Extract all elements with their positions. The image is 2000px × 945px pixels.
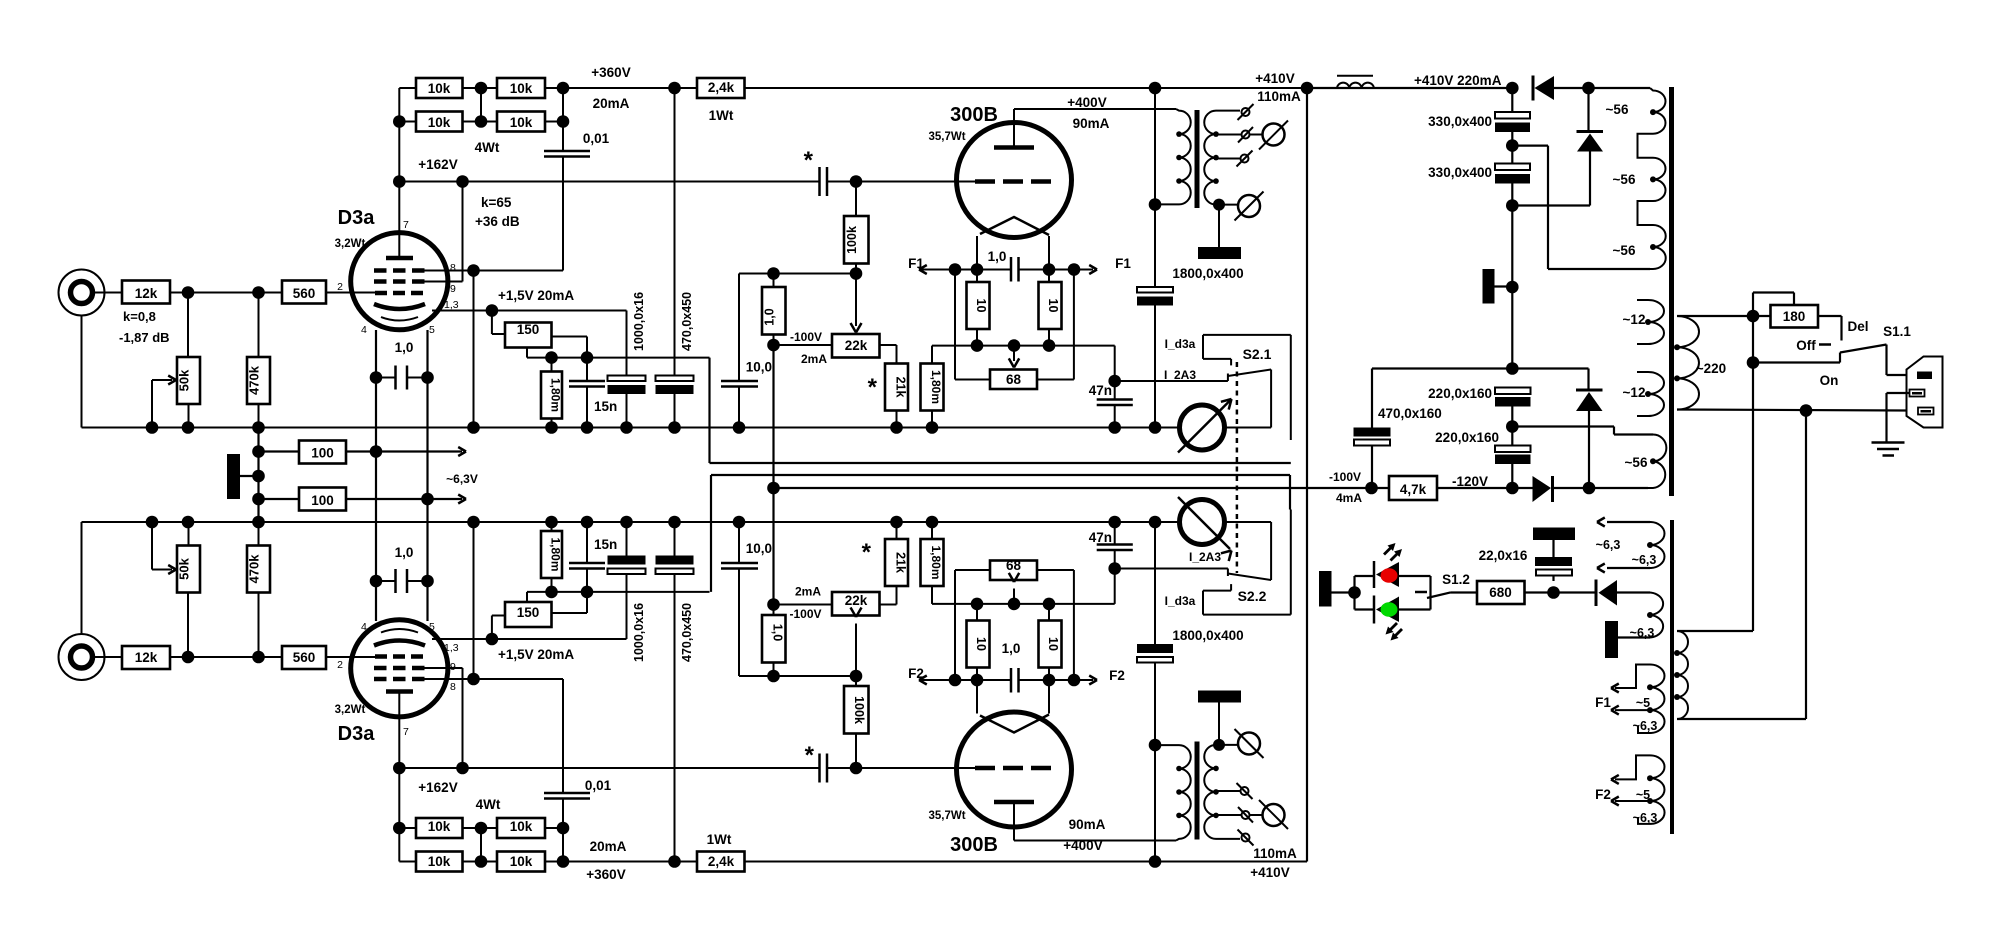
svg-text:Off: Off (1796, 338, 1816, 353)
wire 12k to 560 ch1 (170, 292, 282, 294)
filament wire pin4 (375, 330, 377, 621)
speaker tap 1 ch2 (1216, 838, 1240, 840)
svg-text:F2: F2 (1595, 787, 1611, 802)
wire -100V ch1 (774, 344, 833, 346)
wire +400V ch2 (1014, 840, 1176, 842)
resistor 10 right ch2 (1039, 621, 1062, 668)
+360V rail ch2 (563, 861, 697, 863)
svg-text:470,0x450: 470,0x450 (680, 603, 694, 662)
winding F2 (1615, 755, 1665, 801)
svg-text:1Wt: 1Wt (707, 832, 732, 847)
svg-text:+36 dB: +36 dB (475, 214, 520, 229)
winding cusp nubs (1650, 109, 1656, 115)
svg-text:-120V: -120V (1452, 474, 1488, 489)
svg-text:1,0: 1,0 (771, 624, 785, 641)
wire bias winding top (1512, 425, 1614, 427)
winding ~6,3 a (1607, 521, 1650, 523)
svg-text:+360V: +360V (586, 867, 625, 882)
wire pin8 row ch1 (424, 270, 563, 272)
svg-text:22k: 22k (845, 593, 868, 608)
filament primary winding (1677, 631, 1688, 719)
wire 1,3 down ch2 (626, 574, 628, 639)
svg-text:470k: 470k (247, 365, 262, 395)
svg-text:+400V: +400V (1063, 838, 1102, 853)
speaker tap 4 ground ch1 (1216, 204, 1238, 206)
output transformer secondary ch1 (1204, 111, 1216, 205)
svg-text:+162V: +162V (418, 780, 457, 795)
svg-text:D3a: D3a (338, 723, 376, 745)
coupling capacitor * ch2 (818, 754, 821, 783)
svg-text:+410V: +410V (1255, 71, 1294, 86)
grid wire 300B ch1 (827, 181, 975, 183)
resistor 100 row2 (259, 498, 300, 500)
svg-text:4Wt: 4Wt (476, 797, 501, 812)
svg-text:100: 100 (311, 493, 334, 508)
resistor 1,0 ch1 (762, 287, 786, 335)
LED green (1373, 596, 1376, 624)
wire 12k to 560 ch2 (170, 656, 282, 658)
capacitor 1,0 filament ch1 (1010, 257, 1013, 282)
svg-text:On: On (1820, 373, 1839, 388)
wire 1,3 down ch1 (626, 311, 628, 376)
svg-text:12k: 12k (135, 650, 158, 665)
svg-text:20mA: 20mA (593, 96, 630, 111)
grid-stop row 68 ch2 (932, 603, 1115, 605)
output transformer core ch2 (1195, 742, 1200, 840)
svg-text:F1: F1 (1115, 256, 1131, 271)
svg-text:*: * (805, 742, 815, 769)
tube 300B ch1 (957, 123, 1072, 238)
capacitor 10,0 ch2 (738, 570, 740, 677)
chassis ground bar (227, 454, 240, 499)
svg-text:1800,0x400: 1800,0x400 (1172, 628, 1243, 643)
wire pin9 to +162V ch1 (424, 281, 463, 283)
capacitor 10,0 ch1 (738, 274, 740, 381)
wire to 150 ch2 (491, 616, 493, 640)
svg-text:k=65: k=65 (481, 195, 512, 210)
resistor 10k a ch1 (416, 78, 463, 98)
svg-text:12k: 12k (135, 286, 158, 301)
primary winding ~220 (1677, 316, 1699, 410)
winding ~12 b (1637, 372, 1664, 416)
wire HV winding return (1512, 145, 1548, 147)
capacitor 330,0x400 b (1495, 164, 1530, 171)
svg-text:470,0x160: 470,0x160 (1378, 406, 1442, 421)
resistor 1,80m a ch1 (541, 372, 562, 419)
svg-text:~5: ~5 (1636, 696, 1650, 710)
diode D5 (1595, 580, 1598, 607)
svg-text:-100V: -100V (789, 607, 821, 621)
capacitor 47n ch2 (1114, 551, 1116, 604)
coupling capacitor * ch1 (818, 167, 821, 196)
svg-text:220,0x160: 220,0x160 (1435, 430, 1499, 445)
resistor 100k ch2 (844, 686, 869, 734)
svg-text:~6,3: ~6,3 (1596, 538, 1621, 552)
resistor 10 left ch2 (967, 621, 990, 668)
capacitor 1,0 filament ch2 (1010, 668, 1013, 693)
input RCA jack ch1 (59, 270, 105, 316)
switch S1.1 (1819, 343, 1831, 346)
OPT winding nubs ch2 (1176, 813, 1182, 819)
svg-text:I_d3a: I_d3a (1165, 337, 1196, 351)
speaker tap 2 ch1 (1216, 134, 1241, 136)
winding F1 (1615, 665, 1665, 711)
input RCA jack ch2 (59, 634, 105, 680)
svg-text:+410V: +410V (1250, 865, 1289, 880)
svg-text:9: 9 (450, 283, 456, 295)
power transformer core (1669, 87, 1674, 496)
tube D3a ch1 (351, 233, 448, 330)
svg-text:47n: 47n (1089, 383, 1112, 398)
capacitor 470,0x160 (1371, 369, 1373, 428)
svg-text:+410V 220mA: +410V 220mA (1414, 73, 1502, 88)
svg-text:50k: 50k (177, 557, 192, 579)
svg-text:I_2A3: I_2A3 (1189, 550, 1221, 564)
svg-text:1,80m: 1,80m (929, 545, 943, 579)
svg-text:*: * (868, 374, 878, 401)
svg-text:1000,0x16: 1000,0x16 (632, 292, 646, 351)
wire 10k rows join ch2 (480, 828, 482, 862)
LED bracket left (1353, 576, 1355, 610)
svg-text:-100V: -100V (790, 330, 822, 344)
svg-text:4: 4 (361, 324, 367, 336)
svg-text:22,0x16: 22,0x16 (1479, 548, 1528, 563)
svg-text:~6,3: ~6,3 (1633, 719, 1658, 733)
ground bus ch2 (82, 521, 1180, 523)
resistor 680 (1477, 581, 1525, 604)
cathode wire 1,3 ch1 (432, 310, 627, 312)
svg-text:21k: 21k (894, 552, 908, 573)
capacitor 15n ch1 (586, 358, 588, 380)
speaker tap 3 ch1 (1216, 158, 1240, 160)
resistor 21k ch1 (880, 344, 897, 346)
speaker tap 4 ground ch2 (1216, 744, 1238, 746)
svg-text:2mA: 2mA (801, 352, 827, 366)
winding ~12 a (1637, 300, 1664, 344)
resistor 10 right ch1 (1039, 282, 1062, 329)
svg-text:10: 10 (974, 299, 988, 313)
arrow into 22k ch1 (855, 274, 857, 327)
resistor 22k ch1 (832, 334, 880, 358)
capacitor 1,0 D3a filament ch2 (376, 580, 395, 582)
svg-text:100k: 100k (845, 226, 859, 254)
output transformer secondary ch2 (1204, 745, 1216, 839)
resistor 12k ch2 (122, 646, 170, 669)
wire jack to 12k ch1 (95, 292, 122, 294)
potentiometer 50k ch1 (177, 357, 200, 404)
svg-text:47n: 47n (1089, 530, 1112, 545)
svg-text:90mA: 90mA (1069, 817, 1106, 832)
wire pin8 row ch2 (424, 678, 563, 680)
svg-text:300B: 300B (950, 834, 998, 856)
svg-text:~6,3: ~6,3 (1632, 553, 1657, 567)
svg-text:35,7Wt: 35,7Wt (928, 810, 965, 822)
svg-text:10k: 10k (428, 81, 451, 96)
svg-text:68: 68 (1006, 372, 1022, 387)
resistor 10k a ch2 (416, 852, 463, 872)
HV winding ~56 (1638, 88, 1666, 269)
svg-text:S1.1: S1.1 (1883, 324, 1911, 339)
svg-text:10,0: 10,0 (746, 360, 772, 375)
svg-text:7: 7 (403, 219, 409, 231)
choke L1 (1337, 75, 1373, 77)
resistor 560 ch2 (282, 646, 326, 669)
output transformer primary ch1 (1176, 109, 1191, 204)
svg-text:3,2Wt: 3,2Wt (335, 704, 366, 716)
svg-text:10k: 10k (510, 854, 533, 869)
capacitor 22,0x16 (1533, 528, 1575, 541)
resistor 1,0 ch2 (762, 615, 786, 663)
resistor 1,80m b ch1 (921, 364, 944, 411)
svg-text:50k: 50k (177, 369, 192, 391)
grid-stop row 68 ch1 (932, 345, 1115, 347)
diode D4 (1512, 487, 1532, 489)
resistor 470k ch1 (247, 357, 270, 404)
svg-text:0,01: 0,01 (583, 131, 610, 146)
capacitor 15n ch2 (586, 570, 588, 592)
svg-text:10: 10 (974, 637, 988, 651)
bias tap wire (1506, 362, 1519, 375)
wire D1 to transformer (1589, 87, 1651, 89)
svg-text:~12: ~12 (1623, 312, 1646, 327)
capacitor 220,0x160 b (1495, 446, 1531, 453)
resistor 68 ch1 (954, 270, 956, 380)
resistor 10k d ch1 (497, 112, 545, 132)
svg-text:15n: 15n (594, 399, 617, 414)
svg-text:I_2A3: I_2A3 (1164, 368, 1196, 382)
svg-text:470,0x450: 470,0x450 (680, 292, 694, 351)
svg-text:4mA: 4mA (1336, 491, 1362, 505)
capacitor 470,0x450 ch2 (674, 574, 676, 862)
svg-text:10,0: 10,0 (746, 541, 772, 556)
svg-text:~56: ~56 (1625, 455, 1648, 470)
inter-bus vertical (257, 428, 259, 523)
capacitor 1000,0x16 ch2 (608, 556, 646, 565)
resistor 10k c ch2 (416, 818, 463, 838)
tube 300B ch2 (957, 712, 1072, 827)
diode D2 (1587, 88, 1589, 132)
svg-text:10k: 10k (428, 854, 451, 869)
rectifier winding ~6,3 (1650, 593, 1663, 638)
svg-text:1800,0x400: 1800,0x400 (1172, 266, 1243, 281)
resistor 12k ch1 (122, 281, 170, 304)
wire +400V ch1 (1014, 108, 1176, 110)
speaker tap 3 ch2 (1216, 790, 1240, 792)
svg-text:10k: 10k (428, 819, 451, 834)
wire pin9 to +162V ch2 (424, 667, 463, 669)
capacitor 47n ch1 (1114, 346, 1116, 399)
svg-text:-100V: -100V (1329, 470, 1361, 484)
meter I_2A3 ch2 (1180, 500, 1225, 545)
svg-text:560: 560 (293, 650, 316, 665)
bias winding ~56 (1648, 435, 1666, 489)
resistor 22k ch2 (832, 592, 880, 616)
svg-text:10k: 10k (428, 115, 451, 130)
LED bracket right (1399, 575, 1431, 577)
svg-text:4,7k: 4,7k (1400, 482, 1427, 497)
svg-text:+360V: +360V (591, 65, 630, 80)
svg-text:8: 8 (450, 262, 456, 274)
svg-text:~220: ~220 (1696, 361, 1726, 376)
svg-text:S2.2: S2.2 (1238, 588, 1267, 604)
+162V rail ch2 (399, 767, 819, 769)
svg-text:Del: Del (1847, 319, 1868, 334)
svg-text:35,7Wt: 35,7Wt (928, 131, 965, 143)
cathode wire 1,3 ch2 (432, 638, 627, 640)
svg-text:1,80m: 1,80m (929, 370, 943, 404)
LED red (1373, 561, 1376, 588)
resistor 180 delay (1752, 293, 1754, 317)
svg-text:10k: 10k (510, 115, 533, 130)
cathode row ch2 (527, 591, 710, 593)
svg-text:+400V: +400V (1067, 95, 1106, 110)
svg-text:220,0x160: 220,0x160 (1428, 386, 1492, 401)
resistor 150 ch1 (505, 323, 552, 348)
capacitor 1800,0x400 ch2 (1154, 663, 1156, 862)
svg-text:F1: F1 (908, 256, 924, 271)
svg-text:F1: F1 (1595, 695, 1611, 710)
svg-text:1,3: 1,3 (444, 642, 459, 654)
svg-text:+1,5V 20mA: +1,5V 20mA (498, 647, 574, 662)
switch blade S2 ch1 (1228, 370, 1271, 377)
svg-text:~56: ~56 (1613, 243, 1636, 258)
resistor 21k ch2 (880, 604, 897, 606)
svg-text:*: * (862, 539, 872, 566)
resistor 10 left ch1 (967, 282, 990, 329)
bias node wire ch2 (739, 675, 856, 677)
resistor 100k ch1 (844, 216, 869, 264)
wire 560 to grid ch2 (326, 656, 375, 658)
tube D3a ch2 (351, 620, 448, 717)
svg-text:1,0: 1,0 (988, 249, 1007, 264)
filament row F ch2 (919, 679, 1011, 681)
speaker tap 1 ch1 (1216, 110, 1240, 112)
svg-text:5: 5 (429, 324, 435, 336)
resistor 10k b ch1 (497, 78, 545, 98)
capacitor 1,0 D3a filament ch1 (376, 377, 395, 379)
svg-text:S2.1: S2.1 (1243, 346, 1272, 362)
switch S2 outline ch1 (1203, 334, 1291, 336)
svg-text:D3a: D3a (338, 207, 376, 229)
svg-text:10k: 10k (510, 81, 533, 96)
svg-text:0,01: 0,01 (585, 778, 612, 793)
svg-text:~6,3: ~6,3 (1633, 811, 1658, 825)
svg-text:2mA: 2mA (795, 585, 821, 599)
IEC socket (1907, 357, 1943, 428)
svg-text:470k: 470k (247, 554, 262, 584)
svg-text:560: 560 (293, 286, 316, 301)
arrow into 68 ch2 (1013, 589, 1015, 604)
svg-text:680: 680 (1489, 585, 1512, 600)
switch S1.2 (1415, 591, 1427, 594)
potentiometer 50k ch2 (177, 546, 200, 593)
svg-text:150: 150 (517, 322, 540, 337)
+360V rail ch1 (563, 87, 697, 89)
arrow into 68 ch1 (1013, 346, 1015, 361)
svg-text:110mA: 110mA (1257, 89, 1301, 104)
meter I_2A3 ch1 (1180, 405, 1225, 450)
wire primary bottom (1677, 410, 1907, 411)
wire blade to meter ch1 (1270, 370, 1272, 428)
svg-text:20mA: 20mA (590, 839, 627, 854)
resistor 1,80m b ch2 (921, 539, 944, 586)
LED ground bar (1319, 571, 1332, 607)
wire 560 to grid ch1 (326, 292, 375, 294)
wire 10k rows join ch1 (480, 88, 482, 122)
cathode row ch1 (527, 357, 710, 359)
wire pin8 to bus ch2 (473, 522, 475, 679)
svg-text:+162V: +162V (418, 157, 457, 172)
filament transformer core (1670, 520, 1674, 834)
capacitor 330,0x400 a (1511, 88, 1513, 112)
wire to 150 ch1 (491, 311, 493, 335)
wire jack down to bus ch2 (81, 522, 83, 634)
wire cathode sense ch2 (710, 475, 712, 592)
svg-text:15n: 15n (594, 537, 617, 552)
svg-text:100k: 100k (852, 696, 866, 724)
capacitor 0,01 ch1 (562, 88, 564, 150)
resistor 150 ch2 (505, 602, 552, 627)
capacitor 1800,0x400 ch1 (1154, 88, 1156, 287)
svg-text:*: * (804, 147, 814, 174)
+410V feed vertical (1306, 88, 1308, 862)
svg-text:1Wt: 1Wt (709, 108, 734, 123)
svg-text:~56: ~56 (1606, 102, 1629, 117)
arrow into 22k ch2 (855, 624, 857, 677)
wire pin7 ladder ch2 (398, 768, 400, 862)
svg-text:~56: ~56 (1613, 172, 1636, 187)
resistor 68 ch2 (954, 570, 956, 680)
resistor 10k b ch2 (497, 852, 545, 872)
resistor 4,7k (1389, 476, 1437, 500)
svg-text:F2: F2 (1109, 668, 1125, 683)
ground bar OPT ch2 (1198, 691, 1241, 703)
filament wire pin5 (426, 330, 428, 621)
wire primary feed (1752, 316, 1754, 363)
+162V rail ch1 (399, 181, 819, 183)
wire -100V ch2 (774, 604, 833, 606)
svg-text:I_d3a: I_d3a (1165, 594, 1196, 608)
wire blade to meter ch2 (1270, 522, 1272, 580)
svg-text:1,0: 1,0 (395, 545, 414, 560)
wire -100V bias line (772, 345, 774, 605)
dashed switch link (1236, 362, 1239, 573)
svg-text:~5: ~5 (1636, 788, 1650, 802)
filament row F ch1 (919, 269, 1011, 271)
svg-text:10k: 10k (510, 819, 533, 834)
svg-text:8: 8 (450, 681, 456, 693)
resistor 1,80m a ch2 (541, 531, 562, 578)
resistor 2,4k ch2 (697, 852, 745, 872)
svg-text:~12: ~12 (1623, 385, 1646, 400)
switch blade S2 ch2 (1228, 574, 1271, 581)
resistor 560 ch1 (282, 281, 326, 304)
diode D1 (1506, 82, 1519, 95)
output transformer core ch1 (1195, 110, 1200, 208)
wire jack down to bus ch1 (81, 316, 83, 428)
svg-text:3,2Wt: 3,2Wt (335, 238, 366, 250)
svg-text:10: 10 (1046, 299, 1060, 313)
ground bus ch1 (82, 427, 1180, 429)
ground bar PSU1 (1483, 269, 1495, 304)
svg-text:5: 5 (429, 621, 435, 633)
speaker tap 2 ch2 (1216, 814, 1241, 816)
resistor 2,4k ch1 (697, 78, 745, 98)
svg-text:330,0x400: 330,0x400 (1428, 114, 1492, 129)
svg-text:1000,0x16: 1000,0x16 (632, 603, 646, 662)
svg-text:4: 4 (361, 621, 367, 633)
svg-text:7: 7 (403, 726, 409, 738)
